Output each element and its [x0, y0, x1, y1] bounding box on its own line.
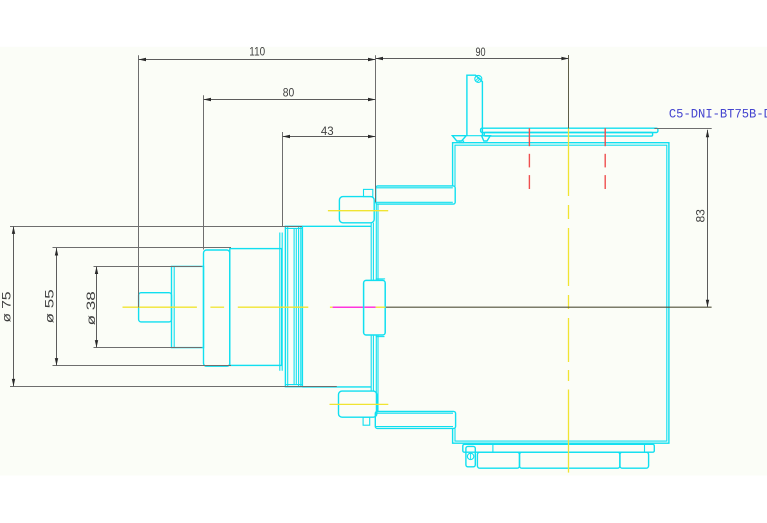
neck drum top edge	[302, 225, 371, 227]
top cap bar1	[481, 128, 658, 132]
ext line dia38 top	[94, 266, 202, 268]
bottom lug	[339, 391, 377, 417]
arrow 83 top	[706, 130, 709, 138]
flange plate back line a	[370, 223, 372, 391]
arrow 80 right	[368, 98, 376, 101]
ring inner line 4	[298, 226, 300, 386]
ext line shared right	[375, 55, 377, 202]
bottom cap bar divider right	[644, 444, 646, 452]
shaft ø55 ring	[204, 250, 230, 366]
flange plate front line a	[375, 204, 377, 412]
ring inner line 1	[287, 226, 289, 386]
motor body outer	[453, 143, 669, 444]
top neck bar inner bottom	[376, 201, 453, 203]
bottom cap box right	[620, 452, 649, 468]
arrow 90 left	[376, 57, 384, 60]
ext line 110 left	[138, 55, 140, 307]
arrow 83 bottom	[706, 300, 709, 308]
flange ring back line b	[281, 233, 283, 371]
ext line 43 left	[282, 132, 284, 226]
DIMENSIONS	[10, 55, 712, 387]
svg-text:110: 110	[249, 45, 265, 59]
axis continuation over body (olive)	[386, 306, 712, 308]
arrow dia38 bottom	[95, 340, 98, 348]
svg-text:ø 75: ø 75	[0, 291, 13, 322]
gland hatch 1	[475, 77, 479, 81]
dim line 110	[139, 59, 376, 61]
dim line 90	[376, 58, 569, 60]
top lug	[339, 197, 374, 223]
ext line 83 top	[654, 128, 711, 130]
arrow 80 left	[204, 98, 212, 101]
arrow dia75 bottom	[12, 379, 15, 387]
PART GEOMETRY (cyan)	[139, 75, 669, 468]
key block on axis (white filled)	[364, 280, 386, 335]
left foot trapezoid	[452, 136, 466, 141]
bottom lug boss	[363, 417, 370, 425]
main axis dash 2	[210, 306, 224, 308]
base line under tab	[466, 135, 481, 137]
ring inner line 2	[293, 228, 295, 384]
main axis dash 4	[330, 306, 333, 308]
arrow dia38 top	[95, 267, 98, 275]
ring inner line 5	[300, 226, 302, 386]
neck drum bottom edge	[302, 386, 371, 388]
bottom cap bar	[463, 444, 655, 452]
drum section	[230, 249, 282, 366]
dim line dia75	[13, 226, 15, 386]
top neck bar inner top	[376, 187, 453, 189]
bottom screw box	[466, 446, 475, 466]
flange plate back line b	[372, 223, 374, 391]
arrow dia55 top	[55, 248, 58, 256]
ext line 90 right	[568, 55, 570, 129]
top lug axis	[328, 210, 388, 212]
ext line dia55 bottom	[53, 365, 232, 367]
top lug boss	[364, 189, 373, 196]
block lower step	[376, 336, 385, 338]
arrow 110 left	[139, 58, 147, 61]
right foot trapezoid	[482, 136, 491, 141]
arrow 110 right	[368, 58, 376, 61]
hidden detail red dashes right	[604, 128, 606, 146]
screw slot	[470, 454, 472, 460]
main axis dash after block	[376, 306, 386, 308]
dim line dia55	[56, 248, 58, 366]
dim line 43	[283, 136, 376, 138]
bottom cap box left	[477, 452, 519, 468]
ring inner line 3	[295, 228, 297, 384]
CENTER LINES	[123, 129, 569, 473]
ext line dia38 bottom	[94, 347, 202, 349]
gland hatch 2	[477, 78, 481, 82]
arrow 43 left	[283, 135, 291, 138]
arrow dia75 top	[12, 226, 15, 234]
main axis dash 3	[238, 306, 308, 308]
svg-text:80: 80	[283, 86, 295, 100]
bottom neck bar inner bottom	[376, 426, 453, 428]
terminal tab	[467, 75, 483, 136]
svg-text:ø 55: ø 55	[42, 289, 56, 323]
flange plate front line b	[377, 204, 379, 412]
bottom lug axis	[330, 403, 389, 405]
svg-text:43: 43	[321, 124, 334, 138]
flange ø75 ring	[285, 226, 302, 386]
ext line 80 left	[203, 95, 205, 249]
bottom neck bar inner top	[376, 412, 453, 414]
selected axis segment (magenta)	[333, 306, 376, 308]
bottom cap bar divider	[492, 444, 494, 452]
bottom screw head	[467, 453, 473, 459]
magenta over block	[364, 306, 375, 308]
shaft ø38 inner face line	[173, 266, 175, 347]
ring bottom shoulder	[285, 384, 302, 386]
hidden detail red dashes left	[529, 128, 605, 189]
bottom neck bar	[375, 411, 455, 428]
shaft ø38 ring	[172, 266, 204, 347]
ext line dia75 top	[10, 226, 302, 228]
ring top shoulder	[285, 227, 302, 229]
top cap bar2	[484, 133, 652, 137]
svg-text:C5-DNI-BT75B-D: C5-DNI-BT75B-D	[669, 107, 767, 122]
dim line 80	[204, 99, 376, 101]
ext line dia75 bottom	[10, 386, 337, 388]
svg-text:90: 90	[475, 45, 485, 59]
left foot pad	[460, 141, 464, 143]
ext line dia55 top	[53, 247, 232, 249]
motor body inner	[455, 145, 667, 441]
dim line 83	[707, 130, 709, 307]
dim line dia38	[96, 267, 98, 348]
svg-text:83: 83	[693, 209, 707, 223]
top neck bar	[376, 186, 456, 204]
shaft tip	[139, 293, 172, 322]
arrow dia55 bottom	[55, 358, 58, 366]
bottom cap box middle	[520, 452, 620, 468]
main axis dash 1	[123, 306, 197, 308]
body vertical axis	[568, 129, 570, 197]
arrow 43 right	[368, 135, 376, 138]
svg-text:ø 38: ø 38	[84, 291, 98, 325]
block upper step	[376, 278, 385, 280]
flange ring back line a	[279, 233, 281, 371]
terminal tab gland circle	[475, 75, 482, 82]
arrow 90 right	[561, 57, 569, 60]
